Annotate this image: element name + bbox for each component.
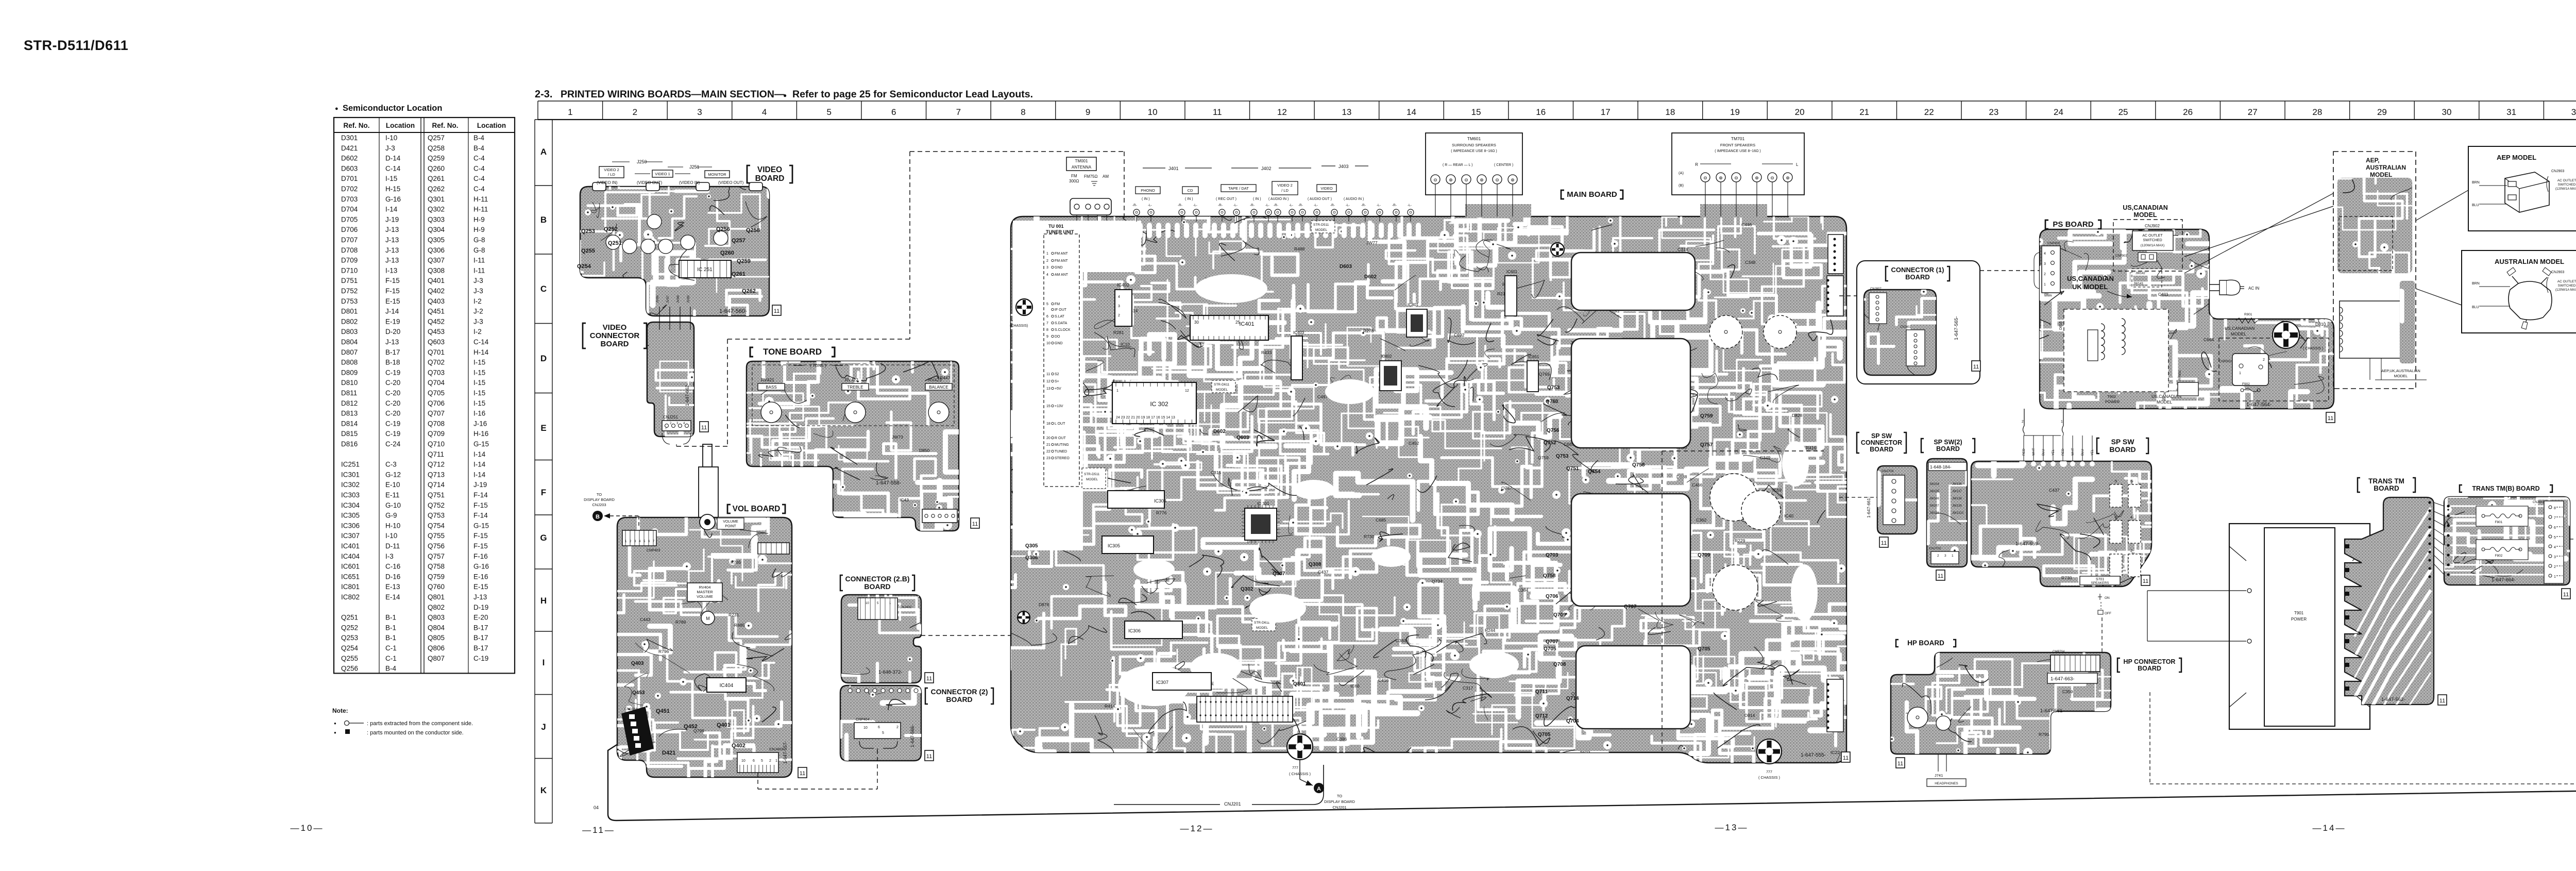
svg-text:I-14: I-14 (385, 206, 398, 213)
svg-text:VOL BOARD: VOL BOARD (733, 505, 781, 513)
svg-text:SP SW: SP SW (2111, 438, 2135, 446)
svg-text:11: 11 (926, 676, 932, 682)
svg-text:1: 1 (2239, 372, 2241, 375)
svg-text:1-647-561-: 1-647-561- (2040, 708, 2064, 714)
svg-text:IC401: IC401 (341, 542, 360, 550)
svg-text:2-3.: 2-3. (535, 89, 552, 100)
svg-text:Q753: Q753 (1556, 454, 1569, 459)
svg-text:CNJ201: CNJ201 (1224, 801, 1241, 807)
svg-text:E-15: E-15 (473, 583, 488, 591)
svg-text:1-647-564-: 1-647-564- (2246, 402, 2272, 408)
svg-text:CNJ403: CNJ403 (769, 747, 783, 751)
svg-text:H-15: H-15 (385, 185, 400, 193)
svg-text:4: 4 (1118, 295, 1120, 299)
svg-text:CONNECTOR: CONNECTOR (590, 331, 640, 340)
svg-text:E-16: E-16 (473, 573, 488, 580)
svg-text:(120W/1A MAX): (120W/1A MAX) (2555, 288, 2576, 292)
svg-text:Q308: Q308 (1309, 562, 1321, 567)
svg-text:ANTENNA: ANTENNA (1072, 165, 1092, 170)
svg-text:C-19: C-19 (385, 368, 400, 376)
svg-text:PHONO: PHONO (1141, 188, 1155, 193)
svg-text:TREBLE: TREBLE (847, 385, 863, 390)
svg-text:RV422: RV422 (845, 377, 858, 382)
svg-text:/ LD: / LD (1281, 188, 1289, 193)
svg-text:11: 11 (1897, 761, 1903, 767)
svg-text:Q734: Q734 (1432, 579, 1443, 584)
svg-text:JV98: JV98 (676, 295, 680, 303)
svg-text:STR-D511/D611: STR-D511/D611 (24, 38, 128, 53)
svg-text:G-9: G-9 (385, 512, 397, 520)
svg-text:-L-: -L- (1233, 204, 1238, 207)
svg-text:JV97: JV97 (666, 295, 670, 303)
svg-text:Q751: Q751 (428, 491, 445, 499)
svg-text:R901: R901 (2244, 313, 2252, 316)
svg-text:D421: D421 (341, 144, 358, 152)
svg-text:1-648-184-: 1-648-184- (1930, 464, 1952, 470)
svg-text:S2: S2 (1055, 373, 1059, 376)
speaker terminal block TM701 (1672, 133, 1804, 195)
svg-text:10: 10 (1148, 107, 1158, 117)
svg-text:SWITCHED: SWITCHED (2558, 284, 2576, 288)
svg-text:J-13: J-13 (385, 338, 399, 346)
svg-text:VOLUME: VOLUME (697, 594, 713, 599)
svg-text:Q752: Q752 (1544, 440, 1556, 446)
svg-text:IC66: IC66 (1350, 683, 1360, 689)
svg-text:BOARD: BOARD (1905, 273, 1930, 281)
svg-text:11: 11 (800, 770, 805, 777)
main board IC301 (1245, 508, 1277, 540)
svg-text:D: D (540, 354, 547, 363)
svg-text:—13—: —13— (1715, 823, 1749, 832)
svg-text:3: 3 (1944, 554, 1946, 558)
svg-text:JW23: JW23 (1579, 750, 1590, 755)
svg-text:3: 3 (1118, 305, 1120, 308)
svg-text:S.LAT: S.LAT (1055, 315, 1065, 319)
svg-text:Q451: Q451 (656, 708, 670, 714)
svg-text:J-2: J-2 (473, 308, 483, 315)
svg-text:8: 8 (1046, 328, 1048, 332)
svg-text:S.DATA: S.DATA (1055, 322, 1067, 325)
hp connector board (2050, 655, 2100, 672)
svg-text:I-11: I-11 (473, 266, 485, 274)
trans tm pin dots and teeth pins (2428, 501, 2431, 504)
svg-text:Q708: Q708 (428, 420, 445, 427)
svg-text:JW105: JW105 (1929, 490, 1939, 493)
svg-text:S701: S701 (2096, 578, 2104, 581)
svg-text:STR-D511: STR-D511 (1084, 473, 1100, 476)
svg-text:TUNER UNIT: TUNER UNIT (1046, 229, 1074, 234)
svg-text:J401: J401 (1168, 166, 1179, 171)
svg-text:JW107: JW107 (1929, 505, 1939, 508)
svg-text:POINT: POINT (725, 525, 736, 528)
svg-text:Q802: Q802 (428, 604, 445, 611)
svg-text:C466: C466 (1692, 482, 1703, 488)
svg-text:H-10: H-10 (385, 522, 400, 529)
aep pcb right (2338, 258, 2415, 363)
svg-text:IC802: IC802 (341, 593, 360, 601)
svg-text:E-13: E-13 (385, 583, 400, 591)
svg-text:7: 7 (1046, 322, 1048, 325)
svg-text:CNJ703: CNJ703 (1882, 470, 1894, 473)
svg-text:BLU: BLU (2472, 204, 2479, 207)
svg-text:10: 10 (1046, 342, 1050, 345)
svg-text:AEP,UK,AUSTRALIAN: AEP,UK,AUSTRALIAN (2381, 368, 2420, 373)
svg-text:Q760: Q760 (428, 583, 445, 591)
svg-text:1-647-661-: 1-647-661- (1866, 496, 1871, 518)
svg-text:E-11: E-11 (385, 491, 400, 499)
svg-text:D421: D421 (662, 750, 675, 756)
svg-text:AUSTRALIAN: AUSTRALIAN (2366, 164, 2406, 171)
svg-text:C-16: C-16 (385, 563, 400, 571)
svg-text:9: 9 (1086, 107, 1090, 117)
svg-text:C-19: C-19 (385, 430, 400, 438)
svg-text:C315: C315 (1211, 470, 1222, 475)
main board misc white blobs (1133, 274, 1818, 678)
svg-text:1-647-560-: 1-647-560- (719, 308, 747, 314)
svg-text:2: 2 (2022, 420, 2024, 424)
svg-text:JW77: JW77 (1366, 240, 1378, 245)
dashed link tm b to bottom right (2570, 539, 2576, 540)
svg-text:JV99: JV99 (687, 295, 690, 303)
svg-text:J-13: J-13 (473, 593, 487, 601)
svg-text:Q751: Q751 (1566, 466, 1579, 472)
main board chassis screw top-left (1016, 299, 1032, 315)
svg-text:US,CANADIAN: US,CANADIAN (2067, 275, 2114, 282)
svg-text:IC251: IC251 (341, 461, 360, 468)
svg-text:CONNECTOR (2): CONNECTOR (2) (931, 688, 988, 696)
svg-text:⊖: ⊖ (1464, 177, 1468, 182)
svg-text:C685: C685 (1376, 517, 1386, 523)
sp sw2 part number box (1928, 462, 1967, 471)
svg-text:6-: 6- (2130, 480, 2134, 483)
svg-text:MODEL: MODEL (1256, 626, 1268, 630)
svg-text:H-16: H-16 (473, 430, 488, 438)
svg-text:⊖: ⊖ (1770, 175, 1774, 180)
connector (2.B) board (836, 559, 964, 768)
svg-text:(VIDEO IN): (VIDEO IN) (679, 180, 700, 185)
svg-text:R: R (1695, 162, 1698, 167)
svg-text:D705: D705 (341, 215, 358, 223)
svg-text:C384: C384 (1518, 588, 1529, 593)
tone board (656, 316, 1033, 555)
svg-text:4: 4 (2554, 546, 2556, 549)
svg-text:IC 301: IC 301 (1257, 501, 1269, 506)
svg-text:-R-: -R- (1330, 204, 1335, 207)
svg-text:Q760: Q760 (1546, 399, 1558, 405)
svg-text:1-647-566-: 1-647-566- (910, 725, 915, 747)
svg-text:MONITOR: MONITOR (708, 172, 726, 177)
video board RCA jack stubs (592, 182, 606, 191)
svg-text:C437: C437 (2049, 488, 2060, 493)
svg-text:Q706: Q706 (428, 399, 445, 407)
svg-text:(B): (B) (1679, 183, 1684, 188)
svg-text:BOARD: BOARD (601, 340, 629, 348)
svg-text:⊕: ⊕ (1786, 175, 1790, 180)
svg-text:19: 19 (1730, 107, 1740, 117)
svg-text:11: 11 (2439, 698, 2445, 704)
svg-text:F801: F801 (2495, 521, 2503, 524)
svg-text:1-647-664-: 1-647-664- (2492, 577, 2515, 583)
svg-text:IC59: IC59 (1772, 488, 1782, 493)
svg-text:Ref. No.: Ref. No. (432, 122, 458, 129)
svg-text:Q304: Q304 (428, 226, 445, 233)
svg-text:D816: D816 (2059, 321, 2063, 330)
svg-text:I-14: I-14 (473, 471, 486, 478)
svg-text:AC OUTLET: AC OUTLET (2557, 179, 2576, 182)
svg-text:C416: C416 (1378, 678, 1389, 683)
svg-text:2-: 2- (2130, 549, 2134, 553)
svg-text:D807: D807 (341, 348, 358, 356)
svg-text:I-15: I-15 (473, 399, 485, 407)
svg-text:AM: AM (1103, 174, 1109, 179)
svg-text:27: 27 (2248, 107, 2258, 117)
main board IC306 (1125, 621, 1182, 639)
svg-text:M: M (706, 616, 710, 621)
svg-text:AEP MODEL: AEP MODEL (2497, 154, 2536, 161)
svg-text:AC OUTLET: AC OUTLET (2142, 234, 2163, 238)
svg-text:4: 4 (2044, 252, 2046, 256)
svg-text:J741: J741 (1935, 773, 1943, 778)
aep wires down (2369, 358, 2370, 380)
svg-text:JW139: JW139 (1952, 505, 1962, 508)
vol board motor (701, 611, 715, 625)
svg-text:Q403: Q403 (428, 297, 445, 305)
svg-text:MODEL: MODEL (2157, 399, 2173, 405)
dashed link main to sp sw connector (1839, 497, 1877, 498)
svg-text:2: 2 (2263, 358, 2265, 362)
svg-text:1: 1 (2061, 420, 2063, 424)
svg-text:-L-: -L- (1265, 204, 1269, 207)
svg-text:11: 11 (2563, 592, 2569, 598)
svg-text:STR-D611: STR-D611 (1214, 383, 1230, 387)
svg-text:VOLUME: VOLUME (723, 520, 738, 524)
svg-text:Q305: Q305 (428, 236, 445, 244)
svg-text:F-15: F-15 (473, 542, 488, 550)
svg-text:Q704: Q704 (1566, 718, 1579, 724)
svg-text:Q305: Q305 (1025, 543, 1038, 549)
svg-text:IC301: IC301 (341, 471, 360, 478)
svg-text:AUSTRALIAN MODEL: AUSTRALIAN MODEL (2495, 258, 2564, 265)
main board tuner unit white area (1013, 221, 1083, 550)
svg-text:1-647-663-: 1-647-663- (2050, 676, 2074, 682)
svg-text:Q252: Q252 (604, 226, 618, 232)
svg-text:CNJ903: CNJ903 (2551, 170, 2564, 173)
svg-text:-L-: -L- (1289, 204, 1293, 207)
connector 2B top connector CNJ402 (858, 598, 897, 619)
svg-text:POWER: POWER (2105, 399, 2120, 404)
australian model plug drawing (2509, 281, 2552, 320)
svg-text:TO: TO (1337, 794, 1342, 798)
svg-text:12: 12 (1185, 389, 1189, 393)
ps JW142 JW143 dashed box (2132, 269, 2162, 287)
svg-text:Q754: Q754 (428, 522, 445, 529)
svg-text:Q753: Q753 (428, 512, 445, 520)
svg-text:D809: D809 (341, 368, 358, 376)
svg-text:Q801: Q801 (1293, 681, 1306, 687)
svg-text:IC304: IC304 (341, 501, 360, 509)
sp sw connector board (1806, 466, 2012, 553)
svg-text:Q260: Q260 (428, 164, 445, 172)
svg-text:IC601: IC601 (1506, 270, 1518, 274)
svg-text:R229: R229 (1735, 538, 1745, 543)
svg-text:E-10: E-10 (385, 481, 400, 489)
svg-text:777: 777 (1292, 766, 1298, 770)
svg-text:6: 6 (1046, 315, 1048, 319)
svg-text:TRANS TM(B) BOARD: TRANS TM(B) BOARD (2472, 485, 2539, 492)
svg-text:F902: F902 (2242, 382, 2250, 386)
svg-text:MODEL: MODEL (2133, 211, 2157, 219)
svg-text:300Ω: 300Ω (1069, 179, 1079, 183)
svg-text:D803: D803 (341, 328, 358, 336)
svg-text:D-19: D-19 (473, 604, 488, 611)
svg-text:IC303: IC303 (341, 491, 360, 499)
svg-text:Q262: Q262 (742, 288, 756, 294)
svg-text:13: 13 (1342, 107, 1351, 117)
svg-text:BOARD: BOARD (2138, 665, 2161, 672)
svg-text:31: 31 (2506, 107, 2516, 117)
svg-text:F802: F802 (2495, 554, 2503, 558)
svg-text:(CHASSIS): (CHASSIS) (1010, 324, 1028, 328)
svg-text:(120W/1A MAX): (120W/1A MAX) (2141, 244, 2165, 247)
svg-text:Q255: Q255 (581, 248, 595, 254)
svg-text:1: 1 (2554, 575, 2556, 579)
hp connector part number box (2047, 673, 2097, 683)
svg-text:-R-: -R- (1132, 204, 1137, 207)
svg-text:D603: D603 (341, 164, 358, 172)
main board bottom connector CNJ401 (1197, 696, 1293, 722)
trans tm b traces (2450, 505, 2547, 507)
svg-text:Q711: Q711 (1535, 689, 1548, 695)
connector 1 CNJ802 connector (1906, 330, 1925, 366)
svg-text:B: B (540, 215, 547, 225)
svg-text:J-19: J-19 (473, 481, 487, 489)
svg-text:JW136: JW136 (1952, 483, 1962, 486)
svg-text:( IMPEDANCE USE 8~16Ω ): ( IMPEDANCE USE 8~16Ω ) (1451, 149, 1497, 153)
svg-text:Q752: Q752 (428, 501, 445, 509)
svg-text:D-14: D-14 (385, 155, 401, 162)
svg-text:Q257: Q257 (428, 134, 445, 142)
svg-text:J-13: J-13 (385, 226, 399, 233)
svg-text:JW73: JW73 (892, 434, 903, 440)
svg-text:F-15: F-15 (385, 287, 400, 295)
svg-text:IF OUT: IF OUT (1055, 308, 1067, 312)
svg-text:+5V: +5V (1055, 387, 1061, 391)
dashed link connector 2B to main board (921, 635, 1011, 636)
svg-text:2: 2 (1118, 314, 1120, 317)
main board (894, 149, 1949, 806)
svg-text:G-8: G-8 (473, 246, 485, 254)
svg-text:Q806: Q806 (428, 644, 445, 652)
dashed frame around tuner section (910, 151, 1124, 152)
svg-text:C-4: C-4 (473, 164, 485, 172)
svg-text:Q707: Q707 (428, 410, 445, 417)
svg-text:TRANS TM: TRANS TM (2368, 477, 2404, 485)
svg-text:Q452: Q452 (428, 317, 445, 325)
svg-text:C-20: C-20 (385, 399, 400, 407)
antenna terminal TM001 (1066, 157, 1096, 171)
svg-text:Q302: Q302 (1241, 587, 1253, 592)
svg-text:21: 21 (1046, 443, 1050, 447)
svg-text:( AUDIO IN ): ( AUDIO IN ) (1268, 197, 1289, 201)
svg-text:IC307: IC307 (1156, 680, 1168, 685)
svg-text:AEP,: AEP, (2366, 157, 2379, 164)
svg-text:JW15: JW15 (2248, 263, 2259, 268)
svg-text:Q259: Q259 (737, 258, 751, 264)
svg-text:D813: D813 (341, 410, 358, 417)
svg-text:Q709: Q709 (428, 430, 445, 438)
svg-text:BOARD: BOARD (2374, 484, 2399, 492)
svg-text:Q756: Q756 (1547, 428, 1560, 433)
svg-text:IC802: IC802 (1381, 354, 1392, 359)
svg-text:CNJ251: CNJ251 (663, 415, 678, 420)
svg-text:Q759: Q759 (428, 573, 445, 580)
svg-text:C396: C396 (1336, 736, 1347, 742)
svg-text:B-1: B-1 (385, 624, 396, 631)
svg-text:AM ANT: AM ANT (1055, 273, 1069, 277)
svg-text:H-14: H-14 (473, 348, 489, 356)
svg-text:E-20: E-20 (473, 614, 488, 622)
svg-text:H-11: H-11 (473, 206, 488, 213)
svg-text:(VIDEO OUT): (VIDEO OUT) (718, 180, 744, 185)
svg-text:MODEL: MODEL (1086, 478, 1098, 481)
svg-text:IC43: IC43 (900, 497, 909, 502)
svg-text:1-647-557-: 1-647-557- (783, 741, 788, 764)
svg-text:BOARD: BOARD (946, 695, 972, 703)
svg-text:12: 12 (1046, 380, 1050, 383)
svg-text:D706: D706 (341, 226, 358, 233)
svg-text:H-11: H-11 (473, 195, 488, 203)
svg-text:BOARD: BOARD (1936, 445, 1960, 453)
main board IC801 IC802 (1380, 361, 1401, 391)
svg-text:Q603: Q603 (428, 338, 445, 346)
svg-text:2: 2 (769, 759, 771, 763)
svg-text:C-4: C-4 (473, 185, 485, 193)
svg-text:IC307: IC307 (341, 532, 360, 540)
aep dashed sub box (2339, 216, 2393, 271)
svg-text:Q453: Q453 (428, 328, 445, 336)
svg-text:Q603: Q603 (1236, 435, 1249, 441)
main section bottom border line (608, 742, 2576, 820)
svg-text:—12—: —12— (1180, 824, 1214, 833)
svg-text:CNP903: CNP903 (2115, 255, 2127, 258)
svg-text:5: 5 (882, 731, 884, 735)
svg-text:Q257: Q257 (732, 238, 745, 244)
svg-text:15: 15 (1471, 107, 1481, 117)
hp board (1839, 642, 2141, 789)
svg-text:●: ● (335, 106, 338, 112)
svg-text:(A): (A) (1679, 171, 1684, 175)
svg-text:8: 8 (2554, 507, 2556, 510)
svg-text:11: 11 (2328, 415, 2333, 422)
dashed link main to connector 1 (1839, 295, 1857, 296)
svg-text:H-9: H-9 (473, 226, 485, 233)
svg-text:J-13: J-13 (385, 246, 399, 254)
svg-text:4: 4 (762, 107, 767, 117)
svg-text:-1: -1 (2114, 549, 2117, 553)
svg-text:⊖: ⊖ (1734, 175, 1738, 180)
svg-text:G-15: G-15 (473, 440, 489, 448)
svg-text:Q757: Q757 (428, 552, 445, 560)
svg-text:C-1: C-1 (385, 655, 397, 662)
semiconductor location table (334, 118, 515, 673)
svg-text:Q804: Q804 (428, 624, 445, 631)
svg-text:FM75Ω: FM75Ω (1084, 174, 1097, 179)
main board chassis screw bottom-right (1757, 739, 1782, 764)
main board chassis screw bottom-center (1287, 734, 1313, 760)
svg-text:-R-: -R- (1274, 204, 1278, 207)
svg-text:C-24: C-24 (385, 440, 401, 448)
svg-text:Q256: Q256 (716, 226, 730, 232)
